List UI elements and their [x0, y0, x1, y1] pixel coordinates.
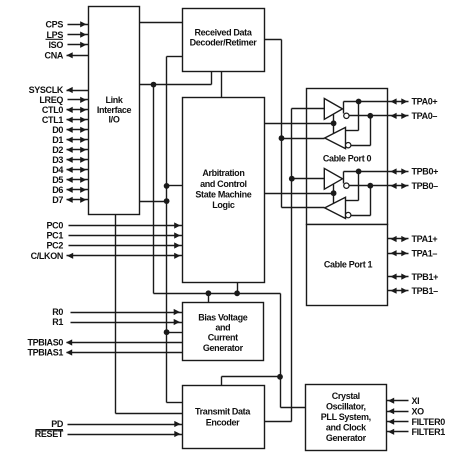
svg-text:Generator: Generator [203, 343, 244, 353]
svg-text:TPB1+: TPB1+ [412, 272, 439, 282]
svg-text:CTL1: CTL1 [42, 115, 63, 125]
svg-text:Link: Link [105, 95, 123, 105]
svg-text:Arbitration: Arbitration [202, 168, 244, 178]
svg-text:Encoder: Encoder [206, 417, 240, 427]
svg-text:Interface: Interface [97, 105, 132, 115]
svg-text:Cable Port 0: Cable Port 0 [323, 153, 372, 163]
svg-text:XO: XO [412, 406, 425, 416]
svg-text:RESET: RESET [35, 429, 64, 439]
svg-text:and Control: and Control [200, 179, 247, 189]
svg-text:TPA1+: TPA1+ [412, 234, 438, 244]
svg-text:TPBIAS0: TPBIAS0 [27, 338, 63, 348]
svg-text:C/LKON: C/LKON [31, 251, 63, 261]
svg-text:R0: R0 [52, 307, 63, 317]
svg-text:TPBIAS1: TPBIAS1 [27, 348, 63, 358]
svg-text:Generator: Generator [326, 433, 367, 443]
svg-text:CPS: CPS [46, 20, 64, 30]
svg-text:Bias Voltage: Bias Voltage [198, 312, 247, 322]
svg-text:Decoder/Retimer: Decoder/Retimer [190, 38, 258, 48]
svg-text:PC2: PC2 [47, 241, 64, 251]
svg-text:SYSCLK: SYSCLK [29, 85, 64, 95]
svg-text:State Machine: State Machine [195, 189, 251, 199]
svg-text:LREQ: LREQ [39, 95, 63, 105]
svg-text:and Clock: and Clock [326, 423, 367, 433]
svg-text:TPB1–: TPB1– [412, 286, 439, 296]
svg-text:TPA1–: TPA1– [412, 248, 438, 258]
svg-text:PC1: PC1 [47, 231, 64, 241]
svg-text:Crystal: Crystal [332, 391, 360, 401]
svg-text:PLL System,: PLL System, [321, 412, 371, 422]
svg-text:Cable Port 1: Cable Port 1 [324, 260, 373, 270]
svg-text:and: and [215, 323, 230, 333]
svg-text:D6: D6 [52, 185, 63, 195]
svg-text:TPB0+: TPB0+ [412, 167, 439, 177]
svg-text:FILTER1: FILTER1 [412, 427, 446, 437]
svg-text:Transmit Data: Transmit Data [195, 407, 251, 417]
svg-text:R1: R1 [52, 317, 63, 327]
svg-text:TPA0+: TPA0+ [412, 97, 438, 107]
svg-text:Logic: Logic [212, 200, 235, 210]
svg-text:D3: D3 [52, 155, 63, 165]
svg-text:D4: D4 [52, 165, 63, 175]
svg-text:D2: D2 [52, 145, 63, 155]
svg-text:CTL0: CTL0 [42, 105, 63, 115]
svg-text:PC0: PC0 [47, 221, 64, 231]
svg-text:Oscillator,: Oscillator, [326, 402, 366, 412]
svg-text:FILTER0: FILTER0 [412, 417, 446, 427]
svg-text:I/O: I/O [109, 115, 120, 125]
svg-text:D0: D0 [52, 125, 63, 135]
svg-text:CNA: CNA [45, 51, 64, 61]
svg-text:LPS: LPS [47, 30, 64, 40]
svg-text:TPB0–: TPB0– [412, 181, 439, 191]
svg-text:D5: D5 [52, 175, 63, 185]
svg-text:Current: Current [208, 333, 238, 343]
svg-text:D7: D7 [52, 195, 63, 205]
svg-text:D1: D1 [52, 135, 63, 145]
svg-text:TPA0–: TPA0– [412, 111, 438, 121]
svg-text:PD: PD [51, 419, 64, 429]
svg-text:ISO: ISO [49, 40, 64, 50]
svg-text:Received Data: Received Data [195, 27, 253, 37]
svg-text:XI: XI [412, 396, 420, 406]
